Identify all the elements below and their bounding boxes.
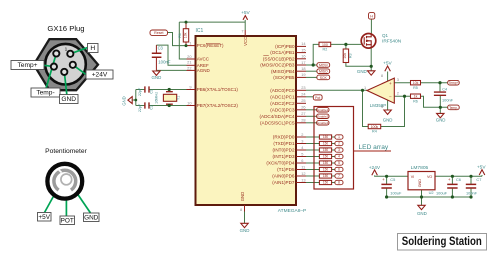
svg-text:Temp-: Temp- xyxy=(449,106,458,110)
svg-text:GND: GND xyxy=(418,179,422,188)
svg-text:(T1)PD5: (T1)PD5 xyxy=(277,167,295,172)
svg-text:4: 4 xyxy=(338,155,340,159)
svg-text:16MHz: 16MHz xyxy=(155,92,159,104)
svg-text:+24V: +24V xyxy=(92,72,108,79)
svg-text:+5V: +5V xyxy=(38,214,50,221)
svg-text:13: 13 xyxy=(301,177,305,182)
svg-text:150: 150 xyxy=(323,181,329,185)
svg-text:27: 27 xyxy=(301,111,305,116)
svg-text:+: + xyxy=(382,177,385,182)
svg-text:VCC: VCC xyxy=(243,37,248,46)
svg-text:AGND: AGND xyxy=(197,68,211,73)
svg-text:(INT1)PD3: (INT1)PD3 xyxy=(273,154,295,159)
svg-text:IRF540N: IRF540N xyxy=(382,39,402,45)
svg-text:+5V: +5V xyxy=(477,165,486,171)
svg-text:(AIN0)PD6: (AIN0)PD6 xyxy=(272,174,295,179)
svg-text:C3: C3 xyxy=(158,45,164,50)
svg-text:(ICP)PB0: (ICP)PB0 xyxy=(275,44,295,49)
svg-text:GND: GND xyxy=(240,228,250,233)
svg-text:PC6(RESET): PC6(RESET) xyxy=(197,43,224,48)
svg-text:+24V: +24V xyxy=(369,165,381,171)
svg-text:1k: 1k xyxy=(414,95,418,99)
svg-text:1: 1 xyxy=(189,40,191,45)
svg-text:10k: 10k xyxy=(413,81,419,85)
svg-text:(ADC4/SDA)PC4: (ADC4/SDA)PC4 xyxy=(260,114,295,119)
svg-text:1: 1 xyxy=(364,85,366,90)
svg-text:(AIN1)PD7: (AIN1)PD7 xyxy=(272,180,295,185)
svg-text:21: 21 xyxy=(187,60,191,65)
svg-text:5: 5 xyxy=(338,161,340,165)
svg-text:150: 150 xyxy=(323,161,329,165)
svg-text:(MOSI/OC2)PB3: (MOSI/OC2)PB3 xyxy=(260,63,295,68)
svg-text:+: + xyxy=(389,81,392,86)
svg-text:GND: GND xyxy=(122,96,127,105)
svg-text:6: 6 xyxy=(338,168,340,172)
svg-text:100uF: 100uF xyxy=(390,191,402,196)
svg-text:GND: GND xyxy=(240,192,245,202)
svg-text:2: 2 xyxy=(338,142,340,146)
svg-text:AVCC: AVCC xyxy=(197,57,210,62)
svg-text:8: 8 xyxy=(338,181,340,185)
svg-text:100: 100 xyxy=(322,43,328,47)
svg-text:R1: R1 xyxy=(178,33,182,38)
svg-text:3: 3 xyxy=(301,138,303,143)
svg-text:3: 3 xyxy=(397,77,399,82)
svg-text:R3: R3 xyxy=(348,53,352,58)
svg-text:R2: R2 xyxy=(323,48,328,52)
svg-text:GND: GND xyxy=(84,214,99,221)
svg-text:GND: GND xyxy=(152,75,162,80)
svg-text:ATMEGA8–P: ATMEGA8–P xyxy=(278,208,306,214)
svg-text:2: 2 xyxy=(301,132,303,137)
svg-text:POT: POT xyxy=(61,217,74,224)
svg-text:(RXD)PD0: (RXD)PD0 xyxy=(273,135,295,140)
svg-text:8: 8 xyxy=(240,207,242,212)
svg-text:7: 7 xyxy=(338,174,340,178)
svg-text:C2: C2 xyxy=(149,105,153,110)
svg-text:17: 17 xyxy=(301,60,305,65)
svg-text:15: 15 xyxy=(301,47,305,52)
svg-text:MISO: MISO xyxy=(319,70,328,74)
svg-text:100nF: 100nF xyxy=(442,98,454,103)
svg-text:23: 23 xyxy=(301,85,305,90)
svg-text:Pot: Pot xyxy=(315,96,320,100)
svg-text:Soldering Station: Soldering Station xyxy=(402,234,482,248)
svg-text:Q1: Q1 xyxy=(382,33,389,38)
svg-text:12: 12 xyxy=(301,171,305,176)
svg-text:(INT0)PD2: (INT0)PD2 xyxy=(273,148,295,153)
svg-text:(ADC2)PC2: (ADC2)PC2 xyxy=(270,101,295,106)
svg-text:GX16 Plug: GX16 Plug xyxy=(47,24,84,33)
svg-text:150: 150 xyxy=(323,174,329,178)
svg-text:22pF: 22pF xyxy=(138,87,142,96)
svg-text:+5V: +5V xyxy=(383,61,392,67)
svg-text:22pF: 22pF xyxy=(138,103,142,112)
svg-text:7: 7 xyxy=(241,28,243,33)
svg-text:Enable1: Enable1 xyxy=(317,108,328,112)
svg-text:150: 150 xyxy=(323,155,329,159)
svg-text:(ADC0)PC0: (ADC0)PC0 xyxy=(270,88,295,93)
svg-text:11: 11 xyxy=(301,164,305,169)
svg-text:GND: GND xyxy=(436,118,446,123)
svg-text:+: + xyxy=(448,177,451,182)
svg-text:Reset: Reset xyxy=(154,31,163,35)
svg-text:28: 28 xyxy=(301,118,305,123)
svg-text:6: 6 xyxy=(301,158,303,163)
svg-text:25: 25 xyxy=(301,98,305,103)
svg-text:Enable3: Enable3 xyxy=(317,121,328,125)
svg-text:VI: VI xyxy=(411,175,414,179)
svg-text:14: 14 xyxy=(301,41,306,46)
svg-text:19: 19 xyxy=(301,72,305,77)
svg-text:26: 26 xyxy=(301,105,305,110)
svg-text:R4: R4 xyxy=(372,130,377,134)
svg-text:2: 2 xyxy=(397,91,399,96)
svg-text:9: 9 xyxy=(189,84,191,89)
svg-text:Temp+: Temp+ xyxy=(18,62,38,69)
svg-text:C6: C6 xyxy=(456,177,461,182)
svg-text:C4: C4 xyxy=(442,88,447,92)
svg-text:1: 1 xyxy=(338,135,340,139)
svg-text:(TXD)PD1: (TXD)PD1 xyxy=(273,141,295,146)
svg-text:(SCK)PB5: (SCK)PB5 xyxy=(273,75,295,80)
svg-text:100nF: 100nF xyxy=(158,60,171,65)
svg-text:22: 22 xyxy=(187,65,191,70)
svg-text:SCK: SCK xyxy=(320,76,328,80)
svg-text:16: 16 xyxy=(301,54,305,59)
svg-text:U2: U2 xyxy=(429,190,434,195)
svg-text:H: H xyxy=(370,15,373,19)
svg-text:C5: C5 xyxy=(390,177,395,182)
svg-text:GND: GND xyxy=(417,211,427,216)
svg-text:C7: C7 xyxy=(476,177,481,182)
svg-text:1: 1 xyxy=(65,47,68,53)
svg-text:100uF: 100uF xyxy=(436,191,448,196)
svg-text:Temp+: Temp+ xyxy=(449,81,459,85)
svg-text:VO: VO xyxy=(427,175,432,179)
svg-text:LED array: LED array xyxy=(359,144,389,151)
svg-text:(OC1A)PB1: (OC1A)PB1 xyxy=(270,50,295,55)
svg-text:LM358P: LM358P xyxy=(370,103,386,108)
svg-text:Potentiometer: Potentiometer xyxy=(45,148,87,155)
svg-text:4: 4 xyxy=(301,145,304,150)
svg-text:(XCK/T0)PD4: (XCK/T0)PD4 xyxy=(266,161,295,166)
svg-text:GND: GND xyxy=(61,96,76,103)
svg-text:R5: R5 xyxy=(413,86,418,90)
svg-text:(SS/OC1B)PB2: (SS/OC1B)PB2 xyxy=(263,56,295,61)
svg-text:−: − xyxy=(389,95,392,100)
svg-text:IC1: IC1 xyxy=(196,28,204,34)
svg-text:8: 8 xyxy=(381,73,383,78)
svg-text:20: 20 xyxy=(187,54,192,59)
svg-text:(ADC5/SCL)PC5: (ADC5/SCL)PC5 xyxy=(260,120,295,125)
svg-text:150: 150 xyxy=(323,148,329,152)
svg-text:LM7805: LM7805 xyxy=(411,165,429,171)
svg-text:5: 5 xyxy=(301,151,303,156)
svg-text:R6: R6 xyxy=(413,99,418,103)
svg-text:(MISO)PB4: (MISO)PB4 xyxy=(271,69,295,74)
svg-text:10k: 10k xyxy=(343,53,347,59)
svg-text:Enable2: Enable2 xyxy=(317,115,328,119)
svg-text:18: 18 xyxy=(301,66,305,71)
svg-text:10k: 10k xyxy=(183,32,187,38)
svg-text:PB6(XTAL1/TOSC1): PB6(XTAL1/TOSC1) xyxy=(197,87,239,92)
svg-text:100k: 100k xyxy=(371,125,379,129)
svg-text:GND: GND xyxy=(357,69,367,74)
svg-text:(ADC1)PC1: (ADC1)PC1 xyxy=(270,94,295,99)
svg-text:(ADC3)PC3: (ADC3)PC3 xyxy=(270,107,295,112)
svg-text:C1: C1 xyxy=(149,89,153,94)
svg-text:MOSI: MOSI xyxy=(319,64,328,68)
svg-text:3: 3 xyxy=(338,148,340,152)
svg-text:150: 150 xyxy=(323,142,329,146)
svg-text:T1: T1 xyxy=(177,96,181,100)
svg-text:Temp-: Temp- xyxy=(36,90,54,97)
svg-text:H: H xyxy=(90,45,95,52)
svg-text:24: 24 xyxy=(301,92,306,97)
svg-text:10: 10 xyxy=(187,100,192,105)
svg-text:100nF: 100nF xyxy=(466,191,478,196)
svg-text:150: 150 xyxy=(323,135,329,139)
svg-text:+5V: +5V xyxy=(241,10,250,16)
svg-text:PB7(XTAL2/TOSC2): PB7(XTAL2/TOSC2) xyxy=(197,103,239,108)
svg-text:150: 150 xyxy=(323,168,329,172)
svg-text:GND: GND xyxy=(383,118,393,123)
